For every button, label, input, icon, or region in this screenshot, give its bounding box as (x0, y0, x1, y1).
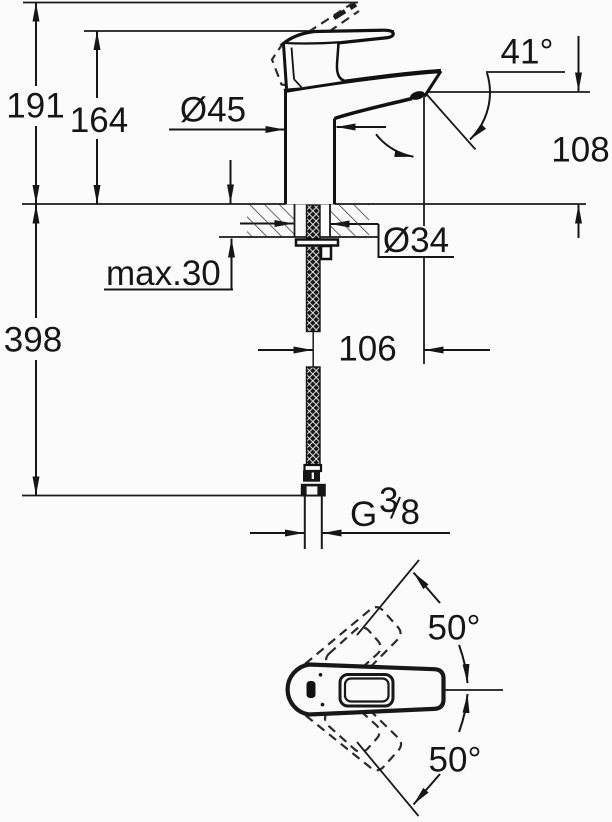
svg-text:164: 164 (70, 101, 128, 140)
svg-text:191: 191 (6, 87, 64, 126)
svg-text:108: 108 (551, 131, 609, 170)
svg-text:50°: 50° (429, 741, 482, 780)
svg-text:G: G (350, 495, 377, 534)
svg-text:8: 8 (401, 493, 420, 532)
svg-text:Ø45: Ø45 (180, 91, 246, 130)
svg-text:50°: 50° (428, 609, 481, 648)
svg-text:41°: 41° (501, 33, 554, 72)
svg-text:max.30: max.30 (106, 254, 221, 293)
svg-text:Ø34: Ø34 (383, 221, 449, 260)
svg-text:3: 3 (379, 481, 398, 520)
svg-text:398: 398 (4, 321, 62, 360)
svg-text:106: 106 (338, 330, 396, 369)
